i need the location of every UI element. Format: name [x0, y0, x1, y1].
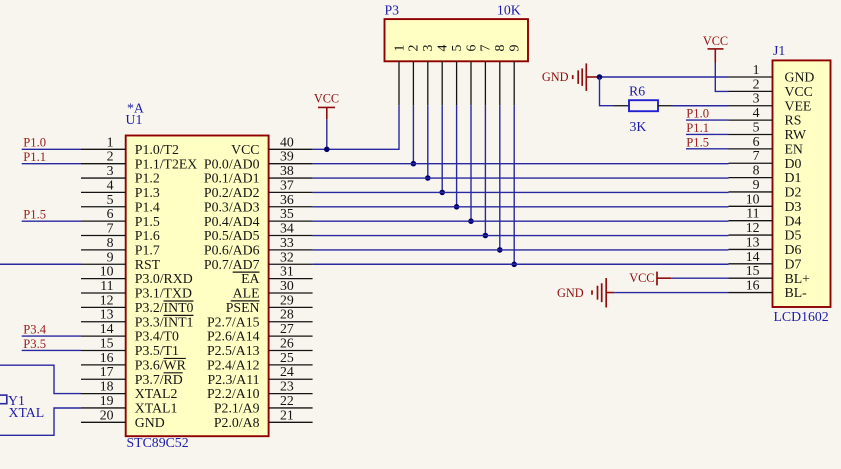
svg-text:6: 6	[463, 44, 478, 51]
svg-text:P2.4/A12: P2.4/A12	[207, 357, 260, 372]
svg-text:P3.3/INT1: P3.3/INT1	[135, 314, 194, 329]
wire P3 pin9 drop	[513, 105, 515, 264]
J1 pin 14 D7	[729, 249, 802, 272]
svg-text:13: 13	[746, 234, 760, 249]
svg-text:P1.2: P1.2	[135, 171, 160, 186]
wire bus D3 row	[313, 206, 729, 208]
U1 pin 26 P2.5/A13	[207, 335, 313, 358]
svg-text:40: 40	[280, 134, 294, 149]
U1 pin 6 P1.5	[81, 206, 160, 229]
svg-text:3: 3	[753, 91, 760, 106]
svg-text:P1.5: P1.5	[686, 135, 709, 149]
wire XTAL2 leg	[0, 365, 81, 393]
P3 pin 4	[435, 44, 450, 105]
svg-text:VCC: VCC	[629, 271, 654, 285]
svg-text:7: 7	[753, 148, 760, 163]
svg-text:9: 9	[753, 177, 760, 192]
P3 pin 1	[391, 44, 406, 105]
J1 pin 7 D0	[729, 148, 802, 171]
wire bus D1 row	[313, 177, 729, 179]
J1 pin 2 VCC	[729, 76, 813, 99]
wire VCC to J1 pin2	[715, 63, 728, 92]
svg-text:EN: EN	[785, 141, 803, 156]
svg-text:RW: RW	[785, 127, 806, 142]
svg-text:30: 30	[280, 278, 294, 293]
junction P3 pin8	[497, 247, 503, 253]
U1 pin 33 P0.6/AD6	[204, 235, 313, 258]
wire GND to J1 pin16	[614, 292, 728, 294]
svg-text:16: 16	[100, 350, 114, 365]
svg-text:D7: D7	[785, 256, 802, 271]
svg-text:J1: J1	[773, 43, 785, 58]
svg-text:11: 11	[100, 278, 113, 293]
P3 pin 7	[478, 44, 493, 105]
U1 pin 27 P2.6/A14	[207, 321, 313, 344]
svg-text:P2.7/A15: P2.7/A15	[207, 314, 260, 329]
J1 pin 1 GND	[729, 62, 815, 85]
svg-text:3: 3	[107, 163, 114, 178]
svg-text:RS: RS	[785, 113, 802, 128]
svg-text:22: 22	[280, 393, 294, 408]
wire P3 pin7 drop	[484, 105, 486, 235]
svg-text:1: 1	[107, 134, 114, 149]
svg-text:P3.4: P3.4	[23, 323, 46, 337]
svg-text:VCC: VCC	[314, 91, 339, 105]
U1 pin 2 P1.1/T2EX	[81, 149, 197, 172]
svg-text:35: 35	[280, 206, 294, 221]
svg-text:19: 19	[100, 393, 114, 408]
svg-text:D4: D4	[785, 213, 802, 228]
svg-text:P1.0: P1.0	[23, 136, 46, 150]
svg-text:17: 17	[100, 364, 114, 379]
svg-text:P3.4/T0: P3.4/T0	[135, 329, 179, 344]
svg-text:P2.0/A8: P2.0/A8	[214, 415, 260, 430]
svg-text:P1.3: P1.3	[135, 185, 160, 200]
svg-text:20: 20	[100, 407, 114, 422]
U1 pin 12 P3.2/INT0	[81, 292, 194, 315]
resistor R6	[614, 100, 673, 111]
svg-text:P0.5/AD5: P0.5/AD5	[204, 228, 260, 243]
wire P3 pin4 drop	[441, 105, 443, 192]
svg-text:7: 7	[107, 221, 114, 236]
svg-text:8: 8	[753, 163, 760, 178]
svg-text:6: 6	[753, 134, 760, 149]
svg-text:P0.1/AD1: P0.1/AD1	[204, 171, 260, 186]
svg-text:P2.1/A9: P2.1/A9	[214, 401, 260, 416]
junction P3 pin3	[425, 175, 431, 181]
svg-text:P3.7/RD: P3.7/RD	[135, 372, 183, 387]
P3 pin 6	[463, 44, 478, 105]
U1 pin 20 GND	[81, 407, 165, 430]
svg-text:P0.3/AD3: P0.3/AD3	[204, 199, 260, 214]
J1 pin 4 RS	[729, 105, 802, 128]
svg-text:2: 2	[753, 76, 760, 91]
U1 pin 25 P2.4/A12	[207, 350, 313, 373]
U1 pin 16 P3.6/WR	[81, 350, 187, 373]
U1 pin 8 P1.7	[81, 235, 160, 258]
connector J1 body	[773, 60, 831, 307]
svg-text:P2.3/A11: P2.3/A11	[207, 372, 259, 387]
svg-text:6: 6	[107, 206, 114, 221]
svg-text:R6: R6	[629, 84, 645, 99]
power GND (J1 pin1)	[542, 63, 600, 91]
svg-text:BL+: BL+	[785, 271, 811, 286]
svg-text:STC89C52: STC89C52	[127, 435, 189, 450]
power VCC (J1 pin2)	[703, 34, 728, 63]
svg-text:P2.2/A10: P2.2/A10	[207, 386, 260, 401]
U1 pin 36 P0.3/AD3	[204, 192, 313, 215]
svg-text:12: 12	[746, 220, 760, 235]
wire VCC to J1 pin15	[671, 277, 728, 279]
U1 pin 28 P2.7/A15	[207, 307, 313, 330]
J1 pin 8 D1	[729, 163, 802, 186]
svg-text:1: 1	[753, 62, 760, 77]
svg-text:D5: D5	[785, 228, 802, 243]
svg-text:XTAL1: XTAL1	[135, 401, 178, 416]
svg-text:P1.0: P1.0	[686, 107, 709, 121]
wire net P1.0 to U1 pin 1	[22, 136, 81, 150]
svg-text:15: 15	[746, 263, 760, 278]
junction P3 pin6	[468, 218, 474, 224]
junction GND node	[597, 74, 603, 80]
svg-text:LCD1602: LCD1602	[774, 309, 829, 324]
svg-text:11: 11	[746, 206, 759, 221]
U1 pin 31 EA	[241, 264, 313, 287]
svg-text:24: 24	[280, 364, 294, 379]
svg-text:33: 33	[280, 235, 294, 250]
svg-text:XTAL2: XTAL2	[135, 386, 178, 401]
svg-text:5: 5	[753, 119, 760, 134]
svg-text:4: 4	[753, 105, 760, 120]
svg-text:16: 16	[746, 278, 760, 293]
svg-text:28: 28	[280, 307, 294, 322]
svg-text:P1.4: P1.4	[135, 199, 160, 214]
wire bus D4 row	[313, 220, 729, 222]
junction P3 pin5	[454, 204, 460, 210]
wire GND to J1 pin1	[600, 76, 729, 78]
svg-text:D2: D2	[785, 185, 802, 200]
U1 pin 38 P0.1/AD1	[204, 163, 313, 186]
wire net P1.1 to J1 pin 5	[686, 121, 729, 135]
svg-text:4: 4	[435, 44, 450, 51]
U1 pin 34 P0.5/AD5	[204, 221, 313, 244]
P3 pin 5	[449, 44, 464, 105]
svg-text:P2.5/A13: P2.5/A13	[207, 343, 260, 358]
svg-text:P3.2/INT0: P3.2/INT0	[135, 300, 194, 315]
svg-text:EA: EA	[241, 271, 259, 286]
svg-text:XTAL: XTAL	[9, 405, 45, 420]
svg-text:7: 7	[478, 44, 493, 51]
U1 pin 4 P1.3	[81, 177, 160, 200]
svg-text:GND: GND	[785, 70, 815, 85]
svg-text:10: 10	[746, 191, 760, 206]
svg-text:ALE: ALE	[233, 286, 260, 301]
svg-text:P0.0/AD0: P0.0/AD0	[204, 156, 260, 171]
U1 pin 9 RST	[81, 249, 161, 272]
U1 pin 5 P1.4	[81, 192, 160, 215]
svg-text:39: 39	[280, 149, 294, 164]
svg-text:GND: GND	[135, 415, 165, 430]
power VCC (J1 pin15 BL+)	[629, 271, 671, 285]
svg-text:21: 21	[280, 407, 294, 422]
U1 pin 1 P1.0/T2	[81, 134, 179, 157]
wire net P3.5 to U1 pin 15	[22, 337, 81, 351]
wire GND branch down to VEE row	[600, 77, 614, 106]
U1 pin 37 P0.2/AD2	[204, 177, 313, 200]
svg-text:GND: GND	[542, 70, 569, 84]
svg-text:3K: 3K	[630, 119, 647, 134]
svg-text:34: 34	[280, 221, 294, 236]
svg-text:VCC: VCC	[703, 34, 728, 48]
svg-text:13: 13	[100, 307, 114, 322]
svg-text:P3.5/T1: P3.5/T1	[135, 343, 179, 358]
wire P3 pin8 drop	[499, 105, 501, 250]
svg-text:26: 26	[280, 335, 294, 350]
svg-text:PSEN: PSEN	[226, 300, 260, 315]
svg-text:1: 1	[391, 44, 406, 51]
svg-text:P3: P3	[385, 3, 400, 18]
svg-text:P1.1: P1.1	[23, 150, 46, 164]
svg-text:P1.7: P1.7	[135, 242, 160, 257]
svg-text:D3: D3	[785, 199, 802, 214]
J1 pin 13 D6	[729, 234, 802, 257]
svg-text:32: 32	[280, 249, 294, 264]
U1 pin 19 XTAL1	[81, 393, 177, 416]
svg-text:36: 36	[280, 192, 294, 207]
wire RST to U1 pin 9	[0, 263, 81, 265]
svg-text:5: 5	[107, 192, 114, 207]
junction P3 pin4	[439, 190, 445, 196]
wire R6 to J1 pin3 VEE	[673, 105, 729, 107]
svg-text:P1.5: P1.5	[135, 214, 160, 229]
U1 pin 10 P3.0/RXD	[81, 264, 193, 287]
junction P3 pin7	[483, 233, 489, 239]
svg-text:4: 4	[107, 177, 114, 192]
svg-text:P3.1/TXD: P3.1/TXD	[135, 286, 192, 301]
svg-text:P1.6: P1.6	[135, 228, 160, 243]
J1 pin 15 BL+	[729, 263, 811, 286]
U1 pin 22 P2.1/A9	[214, 393, 313, 416]
wire P3 pin6 drop	[470, 105, 472, 221]
svg-text:U1: U1	[126, 112, 143, 127]
J1 pin 10 D3	[729, 191, 802, 214]
U1 pin 35 P0.4/AD4	[204, 206, 313, 229]
U1 pin 18 XTAL2	[81, 379, 177, 402]
svg-text:P0.7/AD7: P0.7/AD7	[204, 257, 260, 272]
svg-text:D1: D1	[785, 170, 802, 185]
svg-text:3: 3	[420, 44, 435, 51]
svg-text:P1.1: P1.1	[686, 121, 709, 135]
svg-text:VCC: VCC	[231, 142, 259, 157]
svg-text:14: 14	[100, 321, 114, 336]
wire net P1.0 to J1 pin 4	[686, 107, 729, 121]
svg-text:8: 8	[492, 44, 507, 51]
U1 pin 30 ALE	[231, 278, 313, 301]
junction VCC row40	[324, 147, 330, 153]
wire net P3.4 to U1 pin 14	[22, 323, 81, 337]
svg-text:P1.0/T2: P1.0/T2	[135, 142, 179, 157]
U1 pin 39 P0.0/AD0	[204, 149, 313, 172]
wire net P1.5 to J1 pin 6	[686, 135, 729, 149]
IC U1 body (STC89C52)	[126, 136, 269, 437]
svg-text:P3.6/WR: P3.6/WR	[135, 357, 187, 372]
J1 pin 11 D4	[729, 206, 802, 229]
svg-text:2: 2	[107, 149, 114, 164]
wire XTAL1 leg	[0, 408, 81, 435]
J1 pin 12 D5	[729, 220, 802, 243]
junction P3 pin2	[411, 161, 417, 167]
svg-text:P0.6/AD6: P0.6/AD6	[204, 242, 260, 257]
U1 pin 29 PSEN	[226, 292, 313, 315]
U1 pin 15 P3.5/T1	[81, 335, 179, 358]
svg-text:9: 9	[107, 249, 114, 264]
U1 pin 21 P2.0/A8	[214, 407, 313, 430]
J1 pin 6 EN	[729, 134, 803, 157]
svg-text:D0: D0	[785, 156, 802, 171]
svg-text:P0.4/AD4: P0.4/AD4	[204, 214, 260, 229]
U1 pin 23 P2.2/A10	[207, 379, 313, 402]
wire P3 pin2 drop	[412, 105, 414, 163]
svg-text:9: 9	[507, 44, 522, 51]
svg-text:2: 2	[406, 44, 421, 51]
wire P3 pin3 drop	[427, 105, 429, 178]
svg-text:P1.5: P1.5	[23, 208, 46, 222]
svg-text:12: 12	[100, 292, 114, 307]
P3 pin 8	[492, 44, 507, 105]
svg-text:P3.0/RXD: P3.0/RXD	[135, 271, 193, 286]
P3 pin 9	[507, 44, 522, 105]
U1 pin 17 P3.7/RD	[81, 364, 183, 387]
U1 pin 32 P0.7/AD7	[204, 249, 313, 272]
wire net P1.1 to U1 pin 2	[22, 150, 81, 164]
U1 pin 14 P3.4/T0	[81, 321, 179, 344]
svg-text:VEE: VEE	[785, 98, 812, 113]
wire net P1.5 to U1 pin 6	[22, 208, 81, 222]
svg-text:27: 27	[280, 321, 294, 336]
svg-text:15: 15	[100, 335, 114, 350]
svg-text:GND: GND	[557, 286, 584, 300]
U1 pin 40 VCC	[231, 134, 312, 157]
wire bus D0 row	[313, 163, 729, 165]
junction P3 pin9	[511, 262, 517, 268]
svg-text:BL-: BL-	[785, 285, 808, 300]
wire VCC stem to row40	[326, 119, 328, 149]
svg-text:10K: 10K	[497, 3, 521, 18]
wire P3 pin1 to VCC row	[313, 105, 399, 149]
svg-text:8: 8	[107, 235, 114, 250]
P3 pin 3	[420, 44, 435, 105]
svg-text:23: 23	[280, 379, 294, 394]
J1 pin 16 BL-	[729, 278, 808, 301]
svg-text:VCC: VCC	[785, 84, 813, 99]
U1 pin 24 P2.3/A11	[207, 364, 312, 387]
resistor network P3 body	[385, 19, 529, 61]
crystal Y1 (edge of canvas)	[0, 395, 7, 404]
P3 pin 2	[406, 44, 421, 105]
svg-text:P2.6/A14: P2.6/A14	[207, 329, 260, 344]
svg-text:P1.1/T2EX: P1.1/T2EX	[135, 156, 198, 171]
svg-text:25: 25	[280, 350, 294, 365]
svg-text:5: 5	[449, 44, 464, 51]
svg-text:P3.5: P3.5	[23, 337, 46, 351]
svg-text:10: 10	[100, 264, 114, 279]
svg-text:RST: RST	[135, 257, 161, 272]
wire P3 pin5 drop	[456, 105, 458, 206]
U1 pin 11 P3.1/TXD	[81, 278, 192, 301]
svg-text:P0.2/AD2: P0.2/AD2	[204, 185, 260, 200]
svg-text:14: 14	[746, 249, 760, 264]
svg-text:37: 37	[280, 177, 294, 192]
wire bus D6 row	[313, 249, 729, 251]
U1 pin 3 P1.2	[81, 163, 160, 186]
power VCC (U1 pin40)	[314, 91, 339, 119]
J1 pin 3 VEE	[729, 91, 812, 114]
J1 pin 9 D2	[729, 177, 802, 200]
svg-text:D6: D6	[785, 242, 802, 257]
svg-text:18: 18	[100, 379, 114, 394]
svg-text:29: 29	[280, 292, 294, 307]
U1 pin 13 P3.3/INT1	[81, 307, 194, 330]
U1 pin 7 P1.6	[81, 221, 160, 244]
wire bus D2 row	[313, 191, 729, 193]
J1 pin 5 RW	[729, 119, 806, 142]
wire bus D7 row	[313, 263, 729, 265]
wire bus D5 row	[313, 235, 729, 237]
power GND (J1 pin16 BL-)	[557, 278, 614, 307]
svg-text:38: 38	[280, 163, 294, 178]
svg-text:31: 31	[280, 264, 294, 279]
